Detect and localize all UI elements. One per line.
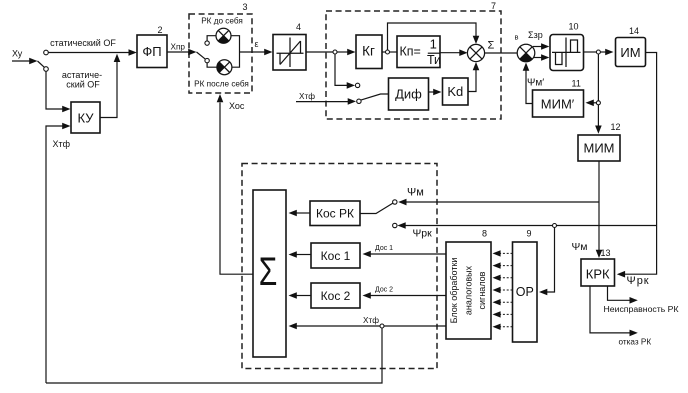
wire Кп to summer <box>440 52 460 54</box>
dashed arrows ОР to block 8 <box>493 250 513 330</box>
block Кос 2 <box>311 283 360 308</box>
svg-text:Блок обработки: Блок обработки <box>449 258 459 324</box>
svg-text:статический ОF: статический ОF <box>50 38 116 48</box>
blade Диф switch <box>361 94 389 100</box>
svg-text:Кп=: Кп= <box>400 45 421 59</box>
svg-text:ОР: ОР <box>516 285 534 299</box>
svg-text:9: 9 <box>527 229 532 239</box>
contact Диф upper <box>355 83 359 87</box>
node after block 10 <box>596 50 600 54</box>
wire КРК to отказ РК <box>590 286 630 333</box>
block Кп=1/Ти <box>397 36 440 68</box>
wire МИМ output down <box>598 161 600 202</box>
svg-text:Kd: Kd <box>447 84 463 99</box>
block 10 (three-position relay) <box>550 35 584 71</box>
node Хтф feedback <box>380 324 384 328</box>
wire summer1 output <box>485 52 518 54</box>
wire Хтф to Σ <box>296 325 446 327</box>
svg-text:2: 2 <box>158 25 163 35</box>
dashed box summator unit <box>242 164 437 369</box>
wire Кос РК switch blade <box>360 203 393 213</box>
contact Ψм <box>393 200 397 204</box>
svg-text:РК после себя: РК после себя <box>194 80 249 89</box>
wire Кос 1 to Σ <box>296 254 311 256</box>
contact РК после себя <box>205 58 209 62</box>
wire ФП to selector <box>167 51 189 53</box>
svg-text:отказ РК: отказ РК <box>619 338 652 347</box>
svg-text:КРК: КРК <box>586 267 610 282</box>
wire block4 to node <box>306 51 334 53</box>
wire Хтф stub <box>296 101 348 103</box>
svg-text:8: 8 <box>482 229 487 239</box>
svg-text:ский ОF: ский ОF <box>66 80 100 90</box>
svg-text:11: 11 <box>572 79 581 89</box>
relay symbol <box>552 38 581 68</box>
block Кос 1 <box>311 243 360 268</box>
wire Xy input <box>12 60 30 62</box>
block Кос РК <box>310 201 360 226</box>
block МИМ' <box>533 90 584 117</box>
block ИМ <box>616 38 646 67</box>
summer U7 <box>467 44 484 61</box>
svg-text:ε: ε <box>255 39 259 49</box>
svg-text:13: 13 <box>601 248 611 258</box>
svg-text:Ψм: Ψм <box>407 187 424 199</box>
wire КУ output up to static line <box>100 61 117 118</box>
svg-text:Σзр: Σзр <box>528 30 543 40</box>
wire summer2 upper output <box>533 46 542 48</box>
svg-text:Хос: Хос <box>229 101 245 111</box>
block Kd <box>443 78 469 105</box>
svg-text:Σ: Σ <box>488 40 495 52</box>
block Σ (summator) <box>253 190 286 357</box>
valve РК после себя <box>217 60 232 75</box>
svg-text:Хтф: Хтф <box>363 316 379 325</box>
summer 2 (в) <box>517 44 535 62</box>
wire down to МИМ <box>597 105 599 126</box>
svg-text:Дос 1: Дос 1 <box>375 245 393 252</box>
block Диф <box>389 78 429 110</box>
svg-text:аналоговых: аналоговых <box>464 265 474 315</box>
block КУ <box>71 102 100 133</box>
svg-text:Кос 2: Кос 2 <box>321 289 351 303</box>
svg-text:Ψрк: Ψрк <box>413 228 433 240</box>
wire Σ output to Хос <box>220 103 253 275</box>
wire astatic contact to КУ input 1 <box>46 71 63 109</box>
node on Ψрк line <box>553 224 557 228</box>
svg-text:Диф: Диф <box>395 87 422 102</box>
wire node down <box>597 54 599 101</box>
svg-text:МИМ′: МИМ′ <box>541 97 575 112</box>
svg-text:Ти: Ти <box>427 53 441 67</box>
svg-text:7: 7 <box>491 1 496 11</box>
node above МИМ <box>596 101 600 105</box>
svg-text:РК до себя: РК до себя <box>201 17 243 26</box>
wire node to Кг <box>337 51 348 53</box>
svg-text:1: 1 <box>430 36 437 51</box>
svg-text:астатиче-: астатиче- <box>62 70 102 80</box>
wire node down to ОР <box>546 228 555 293</box>
dashed box 7 (PID unit) <box>326 11 501 119</box>
svg-text:14: 14 <box>629 26 639 36</box>
wire Кг to node <box>382 51 386 53</box>
backlash symbol <box>277 38 304 68</box>
wire node to ИМ <box>600 51 606 53</box>
block ОР <box>513 242 538 342</box>
switch contact static <box>44 50 49 55</box>
wire static line to ФП <box>48 52 129 54</box>
wire valves merge and output <box>231 36 265 67</box>
wire Ψм horizontal line <box>406 201 599 203</box>
contact Диф lower <box>357 99 361 103</box>
wire branch to Диф upper contact <box>335 54 347 85</box>
svg-text:ИМ: ИМ <box>620 45 640 60</box>
wire block10 to node <box>584 51 597 53</box>
svg-text:Хпр: Хпр <box>171 43 186 52</box>
svg-text:Ψрк: Ψрк <box>627 275 650 287</box>
switch blade input <box>38 61 45 67</box>
wire upper branch <box>207 36 216 41</box>
wire КРК to Неисправность РК <box>608 286 631 300</box>
svg-text:Дос 2: Дос 2 <box>375 287 393 294</box>
svg-text:Хтф: Хтф <box>53 139 71 149</box>
svg-text:Ψм′: Ψм′ <box>527 78 544 89</box>
node after block 4 <box>333 50 337 54</box>
svg-text:сигналов: сигналов <box>477 271 487 309</box>
valve РК до себя <box>216 28 231 43</box>
node after Кг <box>386 50 390 54</box>
wire lower branch <box>207 63 217 67</box>
svg-text:12: 12 <box>611 122 621 132</box>
wire Ψрк horizontal line <box>405 225 656 227</box>
contact Ψрк <box>393 223 397 227</box>
svg-text:3: 3 <box>243 2 248 12</box>
switch contact astatic <box>44 67 49 72</box>
wire МИМ' feedback to summer2 <box>526 71 533 104</box>
svg-text:Кг: Кг <box>362 44 375 59</box>
svg-text:Хтф: Хтф <box>299 92 315 101</box>
block КРК <box>581 259 615 286</box>
svg-text:Неисправность РК: Неисправность РК <box>604 304 680 314</box>
wire Кос 2 to Σ <box>296 295 311 297</box>
svg-text:Кос 1: Кос 1 <box>321 249 351 263</box>
dashed box 3 (РК selector) <box>189 14 252 93</box>
svg-text:ФП: ФП <box>142 44 161 59</box>
svg-text:КУ: КУ <box>78 111 95 126</box>
wire bypass over Кп <box>388 23 477 50</box>
block МИМ (12) <box>578 135 620 161</box>
wire node to Кп <box>390 51 398 53</box>
svg-text:4: 4 <box>296 22 301 32</box>
wire summer2 lower output <box>534 57 542 59</box>
svg-text:Ху: Ху <box>12 49 23 59</box>
svg-text:Ψм: Ψм <box>572 241 588 253</box>
svg-text:Σ: Σ <box>259 250 278 294</box>
wire feedback bottom loop <box>46 328 382 383</box>
wire to МИМ' <box>593 102 596 104</box>
block 8 (analog signals processing) <box>446 242 491 339</box>
block Кг <box>356 35 382 69</box>
wire ИМ output right and down to КРК <box>625 53 657 275</box>
wire Дос 1 <box>371 253 447 255</box>
block 4 (backlash) <box>273 35 306 71</box>
svg-text:10: 10 <box>569 22 579 32</box>
wire Kd to summer <box>468 70 476 92</box>
wire Кос РК to Σ <box>296 212 310 214</box>
svg-text:МИМ: МИМ <box>583 141 614 156</box>
svg-text:Кос РК: Кос РК <box>316 207 354 221</box>
contact РК до себя <box>205 41 209 45</box>
wire down to КРК <box>598 202 600 250</box>
wire Дос 2 <box>371 295 447 297</box>
wire Диф to Kd <box>429 91 435 93</box>
selector blade <box>197 52 206 59</box>
block ФП <box>137 35 167 68</box>
svg-text:в: в <box>515 33 519 42</box>
wire feedback to КУ input 2 <box>46 126 63 383</box>
